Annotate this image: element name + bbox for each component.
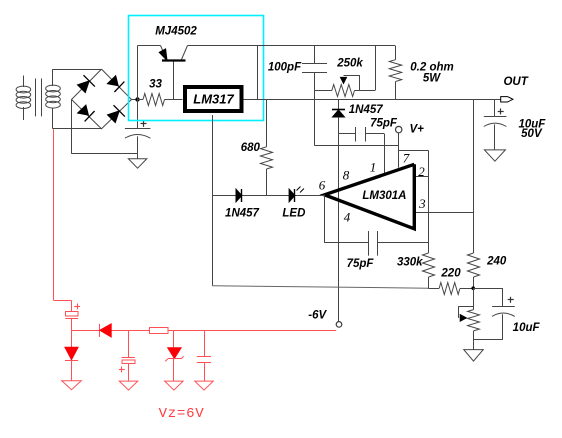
svg-text:6: 6	[319, 177, 326, 192]
svg-text:4: 4	[344, 210, 351, 225]
svg-text:1: 1	[370, 160, 377, 175]
svg-text:LM301A: LM301A	[362, 190, 406, 202]
svg-text:330k: 330k	[397, 257, 423, 269]
svg-text:75pF: 75pF	[347, 258, 375, 270]
svg-text:Vz=6V: Vz=6V	[159, 406, 205, 422]
svg-text:2: 2	[418, 164, 425, 179]
svg-text:1N457: 1N457	[225, 208, 259, 220]
svg-text:10uF: 10uF	[513, 322, 541, 334]
svg-text:8: 8	[343, 168, 350, 183]
svg-text:-6V: -6V	[308, 309, 327, 321]
svg-text:250k: 250k	[336, 58, 363, 70]
svg-text:MJ4502: MJ4502	[155, 26, 197, 38]
svg-text:LED: LED	[282, 208, 305, 220]
svg-text:LM317: LM317	[193, 92, 234, 107]
svg-text:OUT: OUT	[503, 76, 528, 88]
svg-text:75pF: 75pF	[370, 118, 398, 130]
svg-text:1N457: 1N457	[349, 104, 383, 116]
svg-text:240: 240	[486, 256, 507, 268]
svg-text:V+: V+	[410, 124, 425, 136]
svg-text:7: 7	[403, 151, 410, 166]
svg-text:3: 3	[418, 196, 426, 211]
svg-text:50V: 50V	[521, 128, 543, 140]
svg-text:680: 680	[241, 142, 261, 154]
svg-text:100pF: 100pF	[268, 62, 302, 74]
svg-text:220: 220	[440, 268, 461, 280]
svg-text:33: 33	[149, 79, 162, 91]
svg-text:5W: 5W	[423, 72, 441, 84]
